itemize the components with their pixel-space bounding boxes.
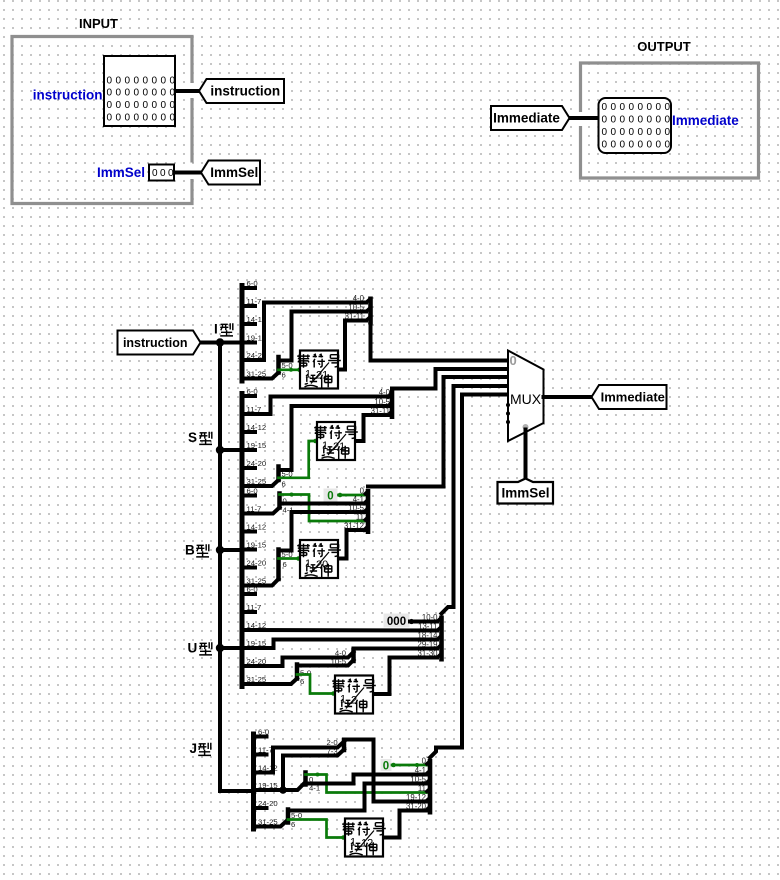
pin dot U signext input xyxy=(331,691,336,696)
sign-extender subcircuit U4 带符号延伸 U xyxy=(332,676,376,714)
wire I immediate bus to MUX in0 xyxy=(371,327,509,361)
svg-text:6: 6 xyxy=(283,560,287,569)
svg-text:00000000: 00000000 xyxy=(602,140,674,151)
svg-text:I: I xyxy=(214,322,218,337)
svg-text:S: S xyxy=(188,430,197,445)
svg-text:0: 0 xyxy=(383,761,389,773)
svg-text:0: 0 xyxy=(510,353,517,368)
svg-text:11-7: 11-7 xyxy=(258,746,273,755)
svg-text:31-20: 31-20 xyxy=(406,802,427,811)
wire trunk to I splitter xyxy=(220,341,242,345)
svg-text:Immediate: Immediate xyxy=(672,113,739,128)
junction U xyxy=(216,644,224,652)
OUTPUT section frame xyxy=(581,63,759,178)
constant 0 (J) xyxy=(381,759,392,771)
svg-text:000: 000 xyxy=(152,168,176,179)
wire trunk to S splitter xyxy=(220,448,242,452)
svg-text:6-0: 6-0 xyxy=(258,728,269,737)
pin dot B signext input xyxy=(296,556,301,561)
wire pin instruction to tunnel xyxy=(175,89,200,93)
svg-text:14-12: 14-12 xyxy=(247,423,267,432)
mini-combiner U spine xyxy=(351,650,356,661)
svg-text:24-20: 24-20 xyxy=(247,559,267,568)
wire J 4-1 to imm 4-1 xyxy=(306,775,431,784)
wire J field 31-25 to sub-splitter xyxy=(254,821,288,827)
svg-text:19-15: 19-15 xyxy=(247,541,267,550)
wire const0 J to imm 0 (green) xyxy=(392,764,430,767)
wire S 5-0 to imm 10-5 xyxy=(279,406,389,470)
svg-text:10-5: 10-5 xyxy=(348,503,364,512)
wire tunnel instruction to trunk xyxy=(201,341,221,345)
svg-text:ImmSel: ImmSel xyxy=(501,486,549,501)
sub-splitter B 31-25 spine xyxy=(276,550,281,580)
green junction I xyxy=(289,368,293,372)
svg-text:0: 0 xyxy=(327,491,333,503)
svg-text:11-7: 11-7 xyxy=(247,297,262,306)
svg-text:ImmSel: ImmSel xyxy=(97,165,145,180)
svg-text:INPUT: INPUT xyxy=(79,16,118,31)
svg-text:000: 000 xyxy=(387,616,406,628)
svg-text:J: J xyxy=(190,741,198,756)
sign-extender subcircuit U2 带符号延伸 S xyxy=(314,422,358,460)
svg-text:11: 11 xyxy=(356,512,364,521)
multiplexer MUX xyxy=(508,351,544,442)
svg-text:1: 1 xyxy=(340,694,346,706)
wire J 19-12 to combiner xyxy=(344,740,430,802)
wire U 29-19 row xyxy=(354,647,438,651)
svg-text:6-0: 6-0 xyxy=(247,387,258,396)
splitter I-type xyxy=(242,279,266,384)
wire U sign bit (green) xyxy=(297,675,335,694)
svg-text:24-20: 24-20 xyxy=(258,799,278,808)
wire S sign bit (green) xyxy=(279,441,318,478)
wire S field 31-25 to sub-splitter xyxy=(242,480,279,486)
splitter J-type xyxy=(254,728,278,832)
junction B xyxy=(216,546,224,554)
svg-text:31-12: 31-12 xyxy=(344,521,364,530)
svg-text:6: 6 xyxy=(282,480,286,489)
svg-text:1: 1 xyxy=(350,837,356,849)
svg-text:instruction: instruction xyxy=(33,88,103,103)
svg-text:18-14: 18-14 xyxy=(418,631,439,640)
svg-text:11-7: 11-7 xyxy=(247,603,262,612)
wire trunk to B splitter xyxy=(220,548,242,552)
input pin ImmSel (3-bit) xyxy=(149,165,174,181)
pin dot S signext input xyxy=(313,439,318,444)
svg-text:1: 1 xyxy=(322,440,328,452)
constant 000 (U) xyxy=(384,614,410,628)
wire J inst15 to imm 11 (green) xyxy=(306,775,431,793)
MUX unused input pin 6 xyxy=(506,412,510,416)
wire U immediate bus to MUX in3 xyxy=(442,386,509,614)
wire B 4-1 to imm 4-1 xyxy=(280,502,369,506)
svg-text:4-0: 4-0 xyxy=(379,388,391,397)
combiner splitter I result xyxy=(345,294,371,325)
sign-extender subcircuit U1 带符号延伸 I xyxy=(297,351,341,389)
wire trunk to U splitter xyxy=(220,646,242,650)
wire U field 14-12 to imm 13-11 xyxy=(242,628,437,633)
sub-splitter J 19-15 spine xyxy=(303,773,308,785)
wire U signext out to imm 31-30 xyxy=(373,658,437,695)
wire I field 24-20 to imm 4-0 xyxy=(242,303,366,361)
tunnel ImmSel (below MUX) xyxy=(498,479,554,504)
wire B immediate bus to MUX in2 xyxy=(368,377,508,487)
svg-text:10-0: 10-0 xyxy=(422,613,438,622)
svg-text:19-15: 19-15 xyxy=(247,441,267,450)
wire U field 24-20 to mini-combiner xyxy=(242,652,354,666)
svg-text:6-0: 6-0 xyxy=(247,585,258,594)
output pin Immediate (32-bit) xyxy=(599,98,672,153)
pin dot J signext input xyxy=(341,835,346,840)
wire MUX select to ImmSel tunnel xyxy=(524,430,528,479)
svg-text:6: 6 xyxy=(282,371,286,380)
svg-text:OUTPUT: OUTPUT xyxy=(637,39,691,54)
combiner splitter B result xyxy=(344,486,368,534)
green junction J xyxy=(316,773,320,777)
wire J signext out to imm 31-20 xyxy=(383,811,430,838)
wire trunk to J splitter xyxy=(220,789,254,793)
MUX select pin dot xyxy=(523,424,529,430)
tunnel instruction (top) xyxy=(199,79,284,103)
svg-text:31-30: 31-30 xyxy=(418,649,439,658)
svg-text:2-0: 2-0 xyxy=(327,738,338,747)
wire pin ImmSel to tunnel xyxy=(174,171,201,175)
combiner splitter J result xyxy=(406,756,430,814)
wire B sign bit (green) xyxy=(279,557,301,560)
tunnel ImmSel (top) xyxy=(201,161,260,185)
MUX unused input pin 7 xyxy=(506,420,510,424)
svg-text:0: 0 xyxy=(422,756,427,765)
wire S field 11-7 to imm 4-0 xyxy=(242,397,388,415)
wire J 5-0 to imm 10-5 xyxy=(288,784,430,811)
svg-text:Immediate: Immediate xyxy=(601,390,665,405)
wire J field 14-12 to mini-combiner 2-0 xyxy=(254,742,345,773)
svg-text:31-11: 31-11 xyxy=(345,312,364,321)
svg-text:instruction: instruction xyxy=(123,336,188,350)
svg-text:00000000: 00000000 xyxy=(107,76,179,87)
splitter U-type xyxy=(242,585,266,689)
wire J field 19-15 to sub-splitter xyxy=(254,784,305,791)
tunnel Immediate (top) xyxy=(491,106,570,130)
wire B 10-5 row xyxy=(292,510,369,514)
combiner splitter U result xyxy=(418,613,442,662)
input pin instruction (32-bit) xyxy=(104,56,175,126)
svg-text:Immediate: Immediate xyxy=(493,111,560,126)
wire const000 to imm 10-0 xyxy=(410,620,437,624)
wire I sign bit (green) xyxy=(279,368,302,371)
wire const0 to imm 0 (green) xyxy=(339,494,369,497)
svg-text:6: 6 xyxy=(291,820,295,829)
wire U field 19-15 to imm 18-14 xyxy=(242,640,437,649)
sign-extender subcircuit U3 带符号延伸 B xyxy=(297,540,341,578)
wire I signext out to imm 31-11 xyxy=(338,321,367,370)
splitter B-type xyxy=(242,487,266,591)
MUX unused input pin 5 xyxy=(506,403,510,407)
svg-text:6-0: 6-0 xyxy=(247,487,258,496)
tunnel instruction (source) xyxy=(118,331,201,355)
svg-text:B: B xyxy=(185,543,195,558)
svg-text:MUX: MUX xyxy=(510,391,542,407)
wire U 5-0 to mini-combiner xyxy=(297,660,354,666)
junction I xyxy=(216,338,224,346)
svg-text:19-12: 19-12 xyxy=(406,793,426,802)
pin dot const0 J xyxy=(391,763,396,768)
svg-text:10-5: 10-5 xyxy=(331,657,346,666)
svg-text:00000000: 00000000 xyxy=(107,88,179,99)
pin dot I signext input xyxy=(297,368,302,373)
wire S signext out to imm 31-11 xyxy=(355,415,388,441)
svg-text:11: 11 xyxy=(418,784,426,793)
wire B field 11-7 to sub-splitter xyxy=(242,508,280,514)
combiner splitter S result xyxy=(371,388,392,419)
svg-text:13-11: 13-11 xyxy=(418,622,437,631)
wire B 5-0 out xyxy=(279,549,292,553)
svg-text:U: U xyxy=(188,641,198,656)
splitter S-type xyxy=(242,387,266,491)
svg-text:6-0: 6-0 xyxy=(247,279,258,288)
svg-text:14-12: 14-12 xyxy=(247,523,267,532)
wire B signext out to imm 31-12 xyxy=(338,530,368,559)
wire MUX output to Immediate tunnel xyxy=(544,395,592,399)
svg-text:00000000: 00000000 xyxy=(107,113,179,124)
svg-text:4-0: 4-0 xyxy=(353,294,365,303)
sub-splitter S spine xyxy=(276,467,281,481)
constant 0 (B) xyxy=(324,489,338,502)
svg-text:1: 1 xyxy=(305,558,311,570)
wire I 5-0 to imm 10-5 xyxy=(279,312,367,361)
wire I field 31-25 to sub-splitter xyxy=(242,373,279,379)
svg-text:instruction: instruction xyxy=(210,84,280,99)
wire J field 19-15 branch to mini-combiner 7-3 xyxy=(283,750,344,791)
green junction J const xyxy=(415,763,419,767)
svg-text:29-19: 29-19 xyxy=(418,640,438,649)
sub-splitter I spine xyxy=(276,357,281,373)
svg-text:ImmSel: ImmSel xyxy=(210,165,258,180)
mini-combiner J spine xyxy=(342,740,347,750)
tunnel Immediate (sink) xyxy=(592,385,667,409)
svg-text:24-20: 24-20 xyxy=(247,459,267,468)
wire trunk vertical xyxy=(218,343,222,792)
wire U field 31-25 to sub-splitter xyxy=(242,679,297,685)
wire B field 31-25 to sub-splitter xyxy=(242,579,279,586)
INPUT section frame xyxy=(12,37,192,204)
wire riser B 10-5 xyxy=(290,512,294,551)
wire S immediate bus to MUX in1 xyxy=(392,369,508,389)
wire J sign bit (green) xyxy=(288,820,345,838)
svg-text:31-11: 31-11 xyxy=(371,406,390,415)
sign-extender subcircuit U5 带符号延伸 J xyxy=(342,819,386,857)
svg-text:1: 1 xyxy=(305,369,311,381)
svg-text:00000000: 00000000 xyxy=(602,102,674,113)
wire B inst7 to imm 11 (green) xyxy=(280,495,369,522)
svg-text:10-5: 10-5 xyxy=(348,303,364,312)
svg-text:00000000: 00000000 xyxy=(602,115,674,126)
junction S xyxy=(216,446,224,454)
sub-splitter U spine xyxy=(295,665,300,679)
junction J 19-15 xyxy=(279,786,287,794)
svg-text:4-1: 4-1 xyxy=(415,766,426,775)
pin dot const000 xyxy=(409,619,414,624)
svg-text:10-5: 10-5 xyxy=(410,775,426,784)
svg-text:7-3: 7-3 xyxy=(327,747,338,756)
sub-splitter B 11-7 spine xyxy=(277,494,282,508)
sub-splitter J 31-25 spine xyxy=(286,810,291,823)
wire J immediate bus to MUX in4 xyxy=(430,395,508,758)
svg-text:6: 6 xyxy=(300,677,304,686)
svg-text:00000000: 00000000 xyxy=(107,100,179,111)
svg-text:10-5: 10-5 xyxy=(374,397,390,406)
green junction B xyxy=(290,493,294,497)
pin dot const0 B xyxy=(338,493,343,498)
svg-text:00000000: 00000000 xyxy=(602,127,674,138)
wire tunnel to pin Immediate xyxy=(569,116,599,120)
